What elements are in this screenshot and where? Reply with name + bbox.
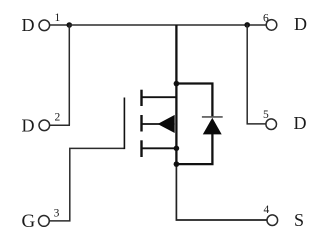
svg-text:2: 2: [55, 112, 61, 124]
diode D1 cathode bar: [202, 116, 223, 118]
transistor Q1 drain stub: [142, 96, 176, 98]
pin 4 terminal circle: [267, 215, 278, 226]
wire drain-source vertical bus: [175, 25, 177, 164]
svg-text:D: D: [22, 15, 35, 35]
svg-text:S: S: [294, 210, 304, 230]
pin 1 terminal circle: [39, 20, 50, 31]
node junction pin5 tap dot: [244, 22, 250, 28]
pin 2 terminal circle: [39, 120, 50, 131]
transistor Q1 body stub: [142, 123, 174, 125]
svg-text:D: D: [294, 14, 307, 34]
wire pin2 to node: [50, 124, 70, 126]
svg-text:3: 3: [54, 208, 60, 220]
svg-text:D: D: [22, 115, 35, 135]
node junction diode top dot: [174, 81, 180, 87]
wire gate lead: [49, 148, 124, 221]
pin 5 terminal circle: [266, 119, 277, 130]
node junction diode bottom dot: [174, 161, 180, 167]
svg-text:G: G: [22, 211, 36, 232]
wire pin1 down to pin2: [68, 24, 70, 125]
wire source lead to pin4: [176, 164, 267, 220]
transistor Q1 gate bar: [123, 98, 125, 150]
transistor Q1 channel dash drain: [140, 90, 142, 106]
transistor Q1 source stub: [142, 147, 176, 149]
wire top rail D1 to D6: [69, 24, 266, 26]
svg-text:1: 1: [55, 12, 61, 24]
wire from diode anode: [176, 134, 212, 164]
wire to diode cathode: [176, 84, 212, 118]
svg-text:5: 5: [263, 109, 269, 121]
transistor Q1 channel dash body: [140, 115, 142, 132]
svg-text:4: 4: [264, 204, 270, 216]
svg-text:6: 6: [263, 12, 269, 24]
node junction pin1 dot: [67, 22, 73, 28]
transistor Q1 channel dash source: [140, 140, 142, 157]
transistor Q1 body arrow: [158, 115, 175, 133]
diode D1 triangle: [203, 118, 222, 135]
pin 3 terminal circle: [39, 216, 50, 227]
node junction source stub dot: [174, 146, 180, 152]
wire pin1 to node: [50, 24, 70, 26]
pin 6 terminal circle: [266, 20, 277, 31]
wire pin5 lead: [247, 24, 266, 124]
svg-text:D: D: [294, 113, 307, 133]
